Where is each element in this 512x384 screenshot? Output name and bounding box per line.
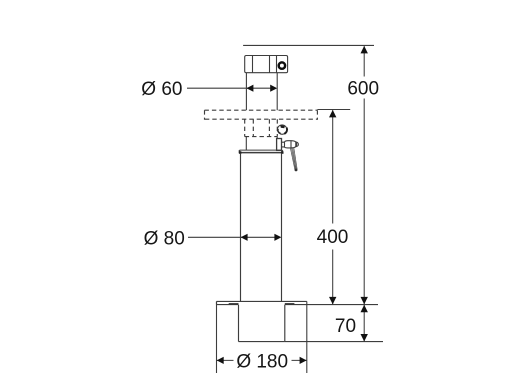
- leader line diameter 80: [188, 236, 280, 238]
- arrow diameter60 right: [270, 85, 277, 92]
- lever knob neck: [282, 142, 285, 148]
- column left edge: [240, 153, 242, 301]
- column collar top line: [240, 149, 283, 151]
- svg-text:400: 400: [317, 227, 349, 248]
- extension line diameter180 right: [306, 301, 308, 373]
- extension line flange top right: [307, 304, 378, 306]
- svg-text:600: 600: [347, 79, 379, 100]
- leader line diameter 60: [187, 87, 276, 89]
- dashed clamp housing outer right: [276, 119, 278, 136]
- arrow diameter180 left (outward): [217, 357, 224, 364]
- base flange left edge: [216, 301, 218, 304]
- extension line tabletop right (400 top): [317, 109, 350, 111]
- bracket divider 2: [269, 56, 271, 73]
- base cylinder bottom: [239, 341, 285, 343]
- clamp screw circle detail: [277, 125, 286, 134]
- base cylinder right edge: [284, 305, 286, 342]
- svg-text:Ø 80: Ø 80: [144, 229, 185, 250]
- lever arm tip: [295, 169, 298, 172]
- base flange bottom right: [285, 304, 307, 306]
- lever arm right edge: [294, 148, 297, 169]
- base cylinder left edge: [238, 305, 240, 342]
- arrow diameter180 right (outward): [300, 357, 307, 364]
- lever arm inner line 2: [293, 148, 297, 169]
- dashed tabletop left edge: [204, 110, 206, 120]
- dashed clamp housing outer left: [244, 119, 246, 136]
- arrow 400 top (up): [329, 110, 336, 118]
- dashed clamp housing inner left: [252, 119, 254, 136]
- dimension line 70: [363, 305, 365, 341]
- dashed clamp housing inner right: [268, 119, 270, 136]
- lever knob bulb divider: [290, 141, 292, 148]
- lever knob bulb: [285, 141, 297, 148]
- bracket divider 1: [252, 56, 254, 73]
- svg-text:70: 70: [335, 316, 356, 337]
- extension line diameter180 left: [216, 301, 218, 373]
- svg-text:Ø 60: Ø 60: [141, 79, 182, 100]
- dashed tabletop bottom line: [205, 118, 318, 120]
- extension line base bottom right: [285, 341, 383, 343]
- arrow 600 top (up): [361, 46, 368, 54]
- lever arm left edge: [290, 148, 295, 170]
- base flange bottom left: [217, 304, 239, 306]
- svg-text:Ø 180: Ø 180: [236, 351, 288, 372]
- collar right end cap: [281, 150, 283, 153]
- dashed clamp housing bottom: [245, 136, 278, 138]
- clamp screw right arc: [284, 128, 287, 134]
- dimension line 600: [363, 46, 365, 304]
- column collar bottom band: [240, 152, 283, 154]
- lever arm inner line 1: [292, 148, 296, 170]
- arrow diameter60 left: [246, 85, 253, 92]
- lever boss: [277, 139, 282, 151]
- inner tube right edge lower: [276, 137, 278, 139]
- collar left corner dot: [239, 151, 242, 154]
- inner tube left edge upper: [245, 73, 247, 111]
- arrow 70 top (up): [361, 305, 368, 313]
- bracket screw head circle: [279, 62, 285, 68]
- clamp screw inner curl: [278, 129, 281, 134]
- bracket divider 3: [276, 56, 278, 73]
- top extension line: [243, 44, 374, 46]
- inner tube left edge lower: [245, 137, 247, 151]
- dashed tabletop top line: [205, 109, 318, 111]
- lever knob tip cap: [296, 142, 299, 147]
- arrow 600 bottom (down): [361, 297, 368, 305]
- arrow diameter80 right: [274, 234, 281, 241]
- arrow 400 bottom (down): [329, 297, 336, 305]
- arrow diameter80 left: [241, 234, 248, 241]
- column right edge: [281, 153, 283, 301]
- collar right corner dot: [281, 151, 284, 154]
- dimension line diameter180: [217, 359, 307, 361]
- base flange top: [217, 300, 307, 302]
- dimension line 400: [332, 110, 334, 304]
- dashed tabletop right edge: [316, 110, 318, 120]
- flange fillet left: [229, 303, 239, 305]
- flange fillet right: [285, 303, 295, 305]
- collar left end cap: [239, 150, 241, 153]
- clamp screw wedge: [280, 125, 285, 128]
- arrow 70 bottom (down): [361, 334, 368, 342]
- inner tube right edge upper: [276, 73, 278, 111]
- top mounting bracket outline: [245, 56, 288, 73]
